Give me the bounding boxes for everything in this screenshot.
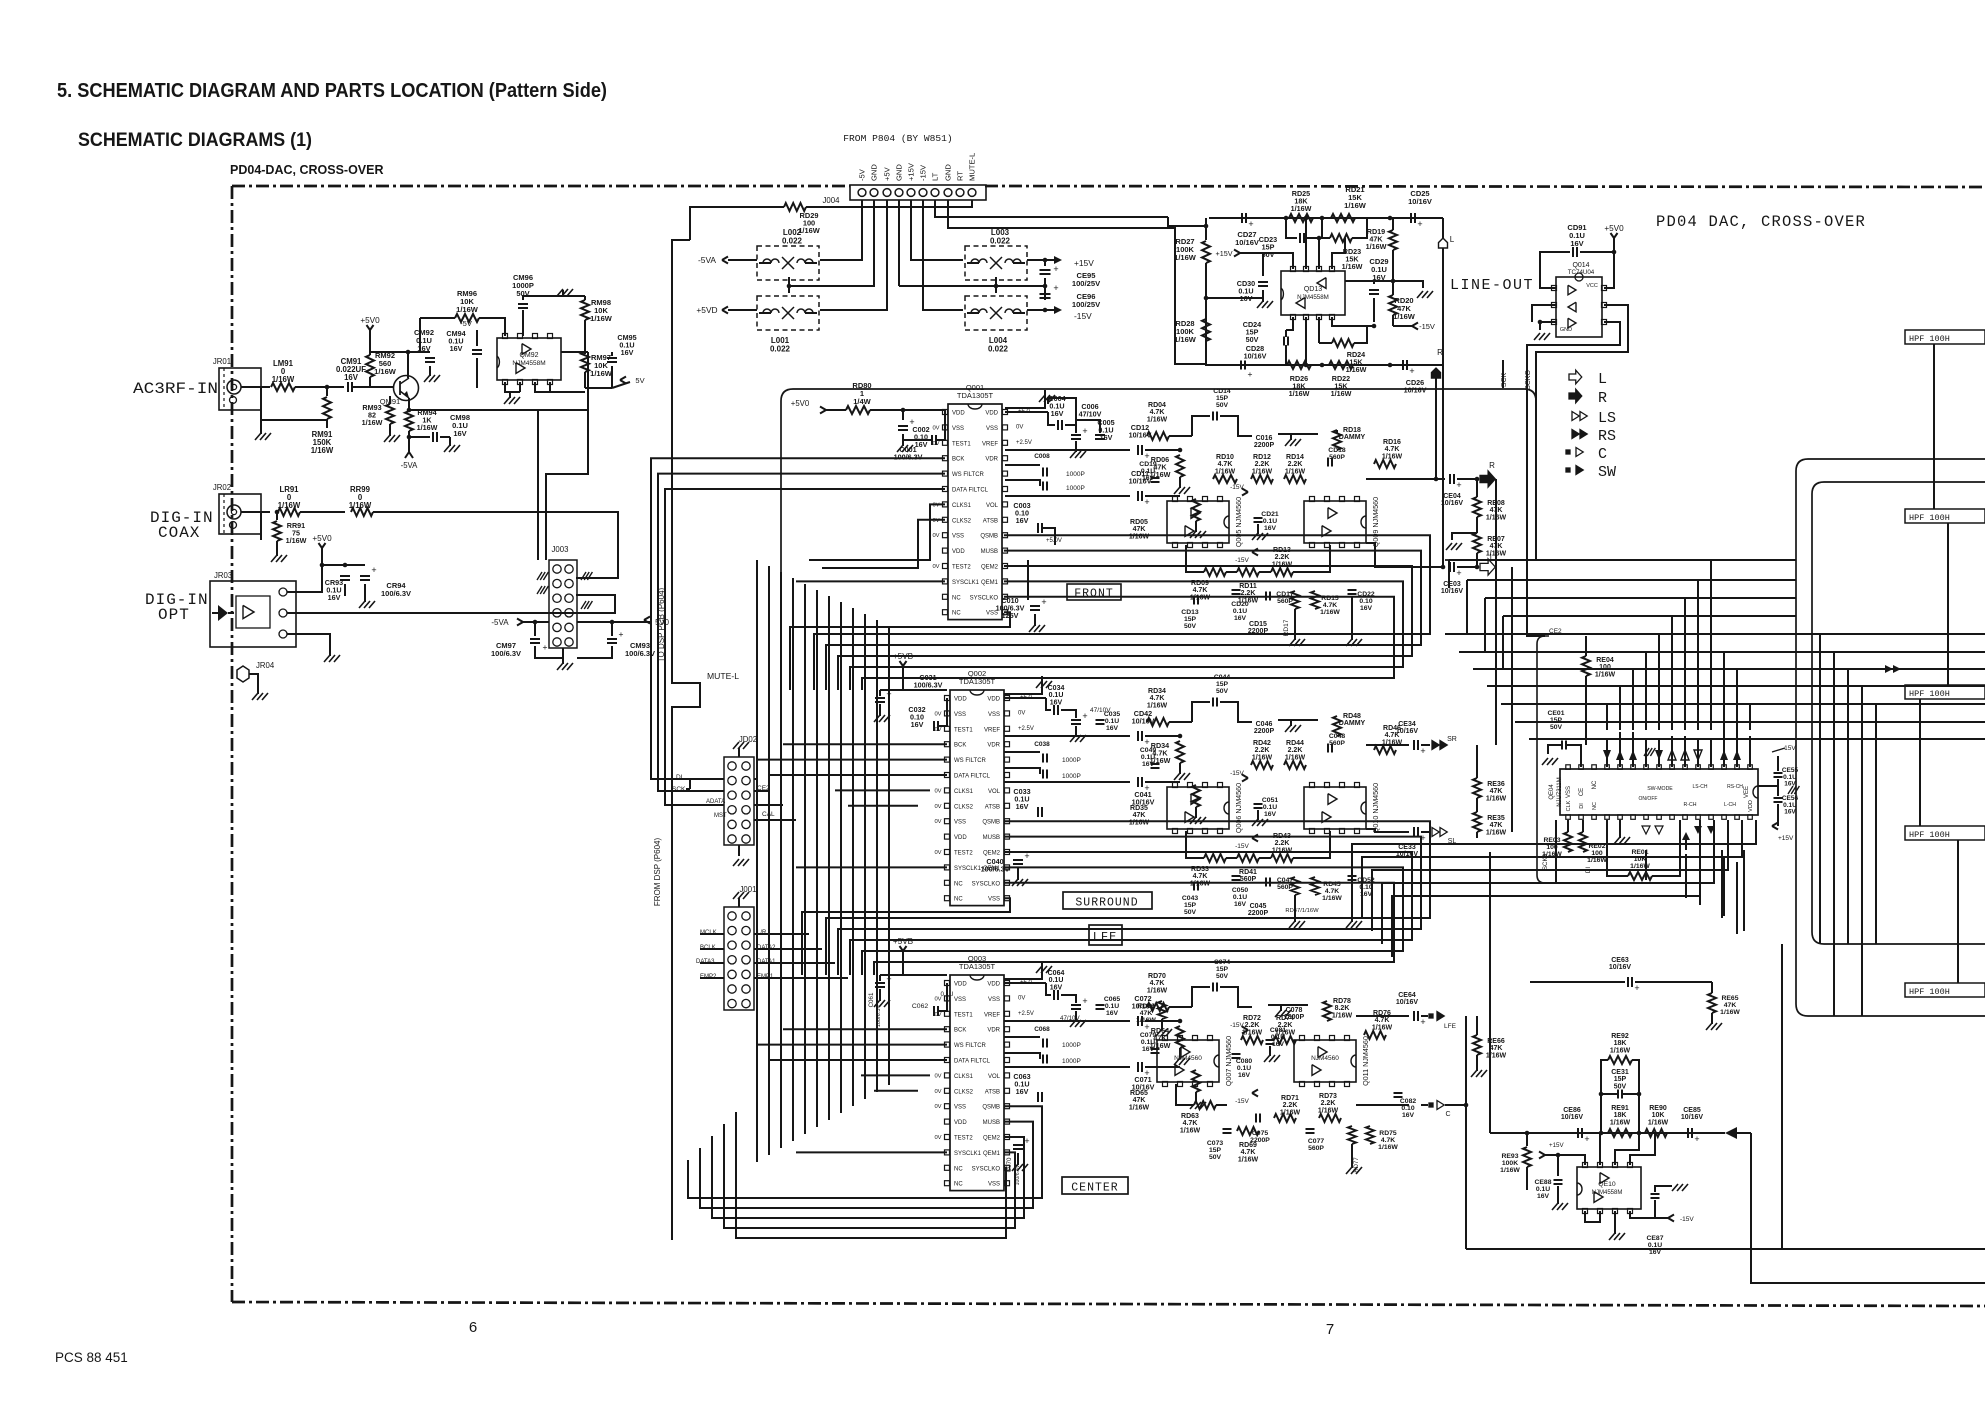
svg-text:16V: 16V <box>453 429 466 438</box>
resistor RE93 <box>1526 1133 1528 1146</box>
svg-text:QEM2: QEM2 <box>983 1136 1001 1142</box>
svg-text:RS: RS <box>1598 428 1616 445</box>
resistor RE65 <box>1708 993 1716 1013</box>
svg-text:-15V: -15V <box>1235 843 1249 850</box>
svg-text:CE85: CE85 <box>1683 1107 1701 1114</box>
svg-text:CD18: CD18 <box>1328 447 1346 454</box>
svg-text:47K: 47K <box>1490 788 1503 795</box>
svg-text:QE04: QE04 <box>1549 784 1555 800</box>
svg-text:RE91: RE91 <box>1611 1105 1629 1112</box>
svg-text:VSS: VSS <box>988 897 1000 903</box>
power -15V QE10 <box>1655 1217 1668 1219</box>
svg-text:+: + <box>1634 983 1639 993</box>
svg-text:1/16W: 1/16W <box>1285 754 1306 761</box>
svg-text:RD72: RD72 <box>1243 1015 1261 1022</box>
svg-text:+5V0: +5V0 <box>791 399 810 408</box>
svg-text:1/16W: 1/16W <box>1587 857 1607 864</box>
svg-text:1/16W: 1/16W <box>1342 262 1363 271</box>
ground RE07 <box>1452 533 1477 540</box>
svg-text:0.1U: 0.1U <box>940 991 953 998</box>
svg-text:6: 6 <box>469 1319 477 1336</box>
wire +15V pin to L003 <box>911 200 963 260</box>
vertical bundle below QE04 <box>1699 850 1701 905</box>
resistor RD16 <box>1374 460 1396 468</box>
svg-text:RE92: RE92 <box>1611 1033 1629 1040</box>
resistor RD80 <box>846 406 870 414</box>
svg-text:10/16V: 10/16V <box>1681 1114 1704 1121</box>
svg-text:VOL: VOL <box>988 1074 1001 1080</box>
svg-text:+15V: +15V <box>1549 1142 1564 1149</box>
svg-text:GND: GND <box>870 164 879 181</box>
svg-text:RD41: RD41 <box>1239 869 1257 876</box>
svg-text:50V: 50V <box>1550 724 1563 731</box>
capacitor CD19 <box>1151 477 1160 479</box>
ground above QE04 <box>1644 748 1649 756</box>
svg-text:C064: C064 <box>1048 970 1065 977</box>
resistor RD25 <box>1289 214 1313 222</box>
svg-text:+2.5V: +2.5V <box>1016 440 1032 446</box>
svg-text:RD18: RD18 <box>1343 427 1361 434</box>
svg-text:2.2K: 2.2K <box>1288 747 1303 754</box>
resistor RD04 <box>1147 432 1169 440</box>
svg-text:47K: 47K <box>1133 812 1146 819</box>
svg-text:HPF 100H: HPF 100H <box>1909 513 1950 523</box>
svg-text:16V: 16V <box>1238 1072 1251 1079</box>
capacitor CE34 <box>1413 740 1415 750</box>
resistor RD06 <box>1145 449 1180 451</box>
svg-text:2.2K: 2.2K <box>1283 1102 1298 1109</box>
power +15V QE10 <box>1539 1152 1545 1156</box>
svg-text:1/16W: 1/16W <box>374 367 397 376</box>
svg-text:18K: 18K <box>1614 1112 1627 1119</box>
wire LT from J004 <box>935 200 1168 217</box>
legend RS double filled <box>1572 430 1579 439</box>
svg-text:Q009 NJM4560: Q009 NJM4560 <box>1371 497 1380 547</box>
svg-text:+: + <box>1409 366 1414 376</box>
svg-text:5. SCHEMATIC DIAGRAM AND PARTS: 5. SCHEMATIC DIAGRAM AND PARTS LOCATION … <box>57 79 607 102</box>
svg-text:L: L <box>1598 371 1607 388</box>
svg-text:+: + <box>1456 480 1461 490</box>
wire GND pin4 <box>898 200 900 286</box>
power +5VB surround <box>902 666 904 674</box>
svg-text:16V: 16V <box>1100 433 1113 442</box>
legend L open arrow <box>1569 370 1582 384</box>
svg-text:LINE-OUT: LINE-OUT <box>1450 277 1534 294</box>
svg-text:NC: NC <box>952 611 961 617</box>
svg-text:+: + <box>1144 451 1149 461</box>
svg-text:CD15: CD15 <box>1249 621 1267 628</box>
capacitor CM95 <box>607 357 617 359</box>
svg-text:L-CH: L-CH <box>1724 802 1736 808</box>
svg-text:SW-MODE: SW-MODE <box>1647 786 1673 792</box>
svg-text:+: + <box>1053 264 1058 274</box>
svg-text:C061: C061 <box>868 992 875 1007</box>
capacitor C062 <box>933 1006 935 1016</box>
svg-text:-15V: -15V <box>1235 1098 1249 1105</box>
surround SR output row <box>1366 744 1409 746</box>
svg-text:-5V: -5V <box>858 168 867 181</box>
svg-text:NC: NC <box>952 595 961 601</box>
svg-text:0V: 0V <box>932 425 939 431</box>
svg-text:BCK: BCK <box>952 457 964 463</box>
svg-text:SCHEMATIC DIAGRAMS (1): SCHEMATIC DIAGRAMS (1) <box>78 129 312 151</box>
svg-text:C045: C045 <box>1250 903 1267 910</box>
svg-text:VDD: VDD <box>954 835 967 841</box>
svg-text:0.1U: 0.1U <box>1263 518 1277 525</box>
svg-text:ATSB: ATSB <box>985 1089 1000 1095</box>
wires QE10 bottom pins <box>1585 1211 1600 1222</box>
capacitor C080 C081 <box>1232 1053 1241 1055</box>
svg-text:RD70: RD70 <box>1148 973 1166 980</box>
resistor RE08 <box>1473 497 1481 517</box>
DAC Q002 <box>950 690 1004 906</box>
wire grid verticals bottom <box>1781 944 1783 1249</box>
svg-text:0.10: 0.10 <box>1401 1105 1414 1112</box>
-15V arrows center <box>1242 1027 1248 1031</box>
svg-text:BCK: BCK <box>954 743 966 749</box>
svg-text:1/16W: 1/16W <box>1190 880 1211 887</box>
svg-text:1000P: 1000P <box>1062 1042 1081 1049</box>
boxed label LFE <box>1089 925 1122 945</box>
filter block corner 2 <box>1812 482 1985 944</box>
svg-text:DATA FILTCL: DATA FILTCL <box>954 774 991 780</box>
svg-text:SURROUND: SURROUND <box>1075 897 1138 910</box>
svg-text:R: R <box>1489 461 1495 470</box>
resistor RD35 <box>1145 781 1180 783</box>
svg-text:PD04-DAC, CROSS-OVER: PD04-DAC, CROSS-OVER <box>230 163 384 177</box>
svg-text:JR02: JR02 <box>213 483 231 492</box>
svg-text:QEM2: QEM2 <box>983 851 1001 857</box>
ground CD29 <box>1393 281 1423 288</box>
nested loop wires below SURROUND DAC <box>826 821 1430 975</box>
svg-text:16V: 16V <box>1142 475 1155 482</box>
resistor RE90 <box>1645 1129 1667 1137</box>
svg-text:PD04 DAC, CROSS-OVER: PD04 DAC, CROSS-OVER <box>1656 213 1866 231</box>
svg-text:C049: C049 <box>1140 747 1156 754</box>
capacitor CE85 <box>1687 1128 1689 1138</box>
svg-text:SYSCLKO: SYSCLKO <box>972 1166 1001 1172</box>
svg-text:CE: CE <box>1579 788 1585 796</box>
svg-text:+: + <box>1584 1134 1589 1144</box>
svg-text:QM92: QM92 <box>519 352 538 359</box>
resistor RE01 <box>1628 872 1652 880</box>
svg-text:+5V0: +5V0 <box>360 316 380 325</box>
front R output row <box>1366 478 1445 480</box>
svg-text:CE86: CE86 <box>1563 1107 1581 1114</box>
svg-text:+: + <box>1082 711 1087 721</box>
svg-text:VSS: VSS <box>988 997 1000 1003</box>
svg-text:CE88: CE88 <box>1534 1179 1551 1186</box>
svg-text:1000P: 1000P <box>1062 757 1081 764</box>
svg-text:C078: C078 <box>1286 1007 1303 1014</box>
op-amp QE10 NJM4558M <box>1577 1167 1641 1209</box>
svg-text:VSS: VSS <box>954 712 966 718</box>
resistor RD70 network top <box>1147 1003 1169 1011</box>
power +5V0 QD14 <box>1613 238 1615 246</box>
wire CE2 bus <box>1537 636 1556 883</box>
svg-text:CD20: CD20 <box>1231 601 1249 608</box>
svg-text:+: + <box>1420 746 1425 756</box>
svg-text:QEM1: QEM1 <box>981 580 999 586</box>
svg-text:100K: 100K <box>1502 1160 1518 1167</box>
capacitor CD21 <box>1254 517 1263 519</box>
svg-text:47K: 47K <box>1490 822 1503 829</box>
bus connections J001 <box>754 933 809 935</box>
svg-text:0.022: 0.022 <box>770 345 791 354</box>
svg-text:-5VA: -5VA <box>491 618 509 627</box>
svg-text:R-CH: R-CH <box>1684 802 1697 808</box>
capacitor C063 <box>1037 1092 1039 1102</box>
svg-text:VDD: VDD <box>952 411 965 417</box>
resistor RE36 <box>1473 778 1481 798</box>
wire QM91 emitter output to right <box>409 409 588 411</box>
capacitor CR94 <box>345 564 365 566</box>
svg-text:C062: C062 <box>912 1003 928 1010</box>
connector J002 <box>724 757 754 845</box>
svg-text:NJM4558M: NJM4558M <box>1297 294 1329 301</box>
svg-text:VSS: VSS <box>986 426 998 432</box>
svg-text:CE64: CE64 <box>1398 992 1416 999</box>
svg-text:50V: 50V <box>1614 1083 1627 1090</box>
svg-text:VOL: VOL <box>988 789 1001 795</box>
svg-text:4.7K: 4.7K <box>1150 695 1165 702</box>
capacitor CE88 <box>1557 1155 1559 1176</box>
svg-text:TDA1305T: TDA1305T <box>957 391 994 400</box>
svg-text:0V: 0V <box>934 788 941 794</box>
op-amp QD13 NJM4558M <box>1281 271 1345 315</box>
ground top right front <box>1005 396 1045 408</box>
connector J001 <box>724 907 754 1010</box>
svg-text:R: R <box>1598 390 1607 407</box>
svg-text:1/16W: 1/16W <box>272 375 295 384</box>
svg-text:0.1U: 0.1U <box>1271 1034 1285 1041</box>
svg-text:1/16W: 1/16W <box>1630 863 1650 870</box>
svg-text:+5V0: +5V0 <box>312 534 332 543</box>
svg-text:VDD: VDD <box>987 697 1000 703</box>
svg-text:VSS: VSS <box>954 1105 966 1111</box>
svg-text:4.7K: 4.7K <box>1193 873 1208 880</box>
svg-text:BCK: BCK <box>954 1028 966 1034</box>
svg-text:15P: 15P <box>1216 395 1229 402</box>
capacitor CD17 <box>1265 592 1267 601</box>
svg-text:RS-CH: RS-CH <box>1727 784 1743 790</box>
trunk wire L down <box>1442 365 1444 567</box>
power +15V QD13 <box>1234 250 1240 254</box>
svg-text:VREF: VREF <box>982 441 998 447</box>
svg-text:+: + <box>1248 369 1253 379</box>
svg-text:16V: 16V <box>1402 1112 1415 1119</box>
svg-text:47K: 47K <box>1133 1097 1146 1104</box>
+5V arrow QM92 <box>612 382 630 388</box>
capacitor CD27 <box>1241 213 1243 223</box>
svg-text:16V: 16V <box>450 344 463 353</box>
svg-text:1/16W: 1/16W <box>1318 1107 1339 1114</box>
arrow into QE10 <box>1725 1127 1737 1139</box>
svg-text:4.7K: 4.7K <box>1193 587 1208 594</box>
svg-text:1/16W: 1/16W <box>349 501 372 510</box>
capacitor CD20 <box>1232 589 1241 591</box>
wire QD14 outputs SCK SCKO <box>1527 322 1620 388</box>
resistor RE03 <box>1564 832 1572 852</box>
boxed label SURROUND <box>1063 892 1152 909</box>
svg-text:100/6.3V: 100/6.3V <box>914 681 943 690</box>
svg-text:C034: C034 <box>1048 685 1065 692</box>
svg-text:1/4W: 1/4W <box>853 397 871 406</box>
svg-text:OPT: OPT <box>158 606 190 624</box>
svg-text:1000P: 1000P <box>1062 773 1081 780</box>
svg-text:2.2K: 2.2K <box>1255 747 1270 754</box>
svg-text:CD21: CD21 <box>1261 511 1279 518</box>
svg-text:0V: 0V <box>934 1104 941 1110</box>
capacitors C068 C067 <box>1004 1036 1040 1038</box>
svg-text:15P: 15P <box>1216 966 1229 973</box>
diode down open above QE04 <box>1694 750 1702 760</box>
capacitor C044 <box>1192 702 1210 722</box>
choke L003 <box>965 246 1027 280</box>
svg-text:100/6.3V: 100/6.3V <box>894 453 923 462</box>
svg-text:0.1U: 0.1U <box>1141 1039 1155 1046</box>
power -5VA at QM91 <box>408 444 410 452</box>
svg-text:RD78: RD78 <box>1333 998 1351 1005</box>
svg-text:C043: C043 <box>1182 895 1198 902</box>
extra loop front <box>790 612 1010 690</box>
connector JR02 <box>219 494 261 534</box>
surround SL output row <box>1366 829 1409 832</box>
svg-text:1/16W: 1/16W <box>1320 609 1340 616</box>
resistor RD27 <box>1205 218 1207 240</box>
svg-text:50V: 50V <box>1184 623 1197 630</box>
svg-text:COAX: COAX <box>158 524 200 542</box>
svg-text:16V: 16V <box>1016 802 1029 811</box>
resistor RD05 <box>1145 495 1180 497</box>
resistor RE66 <box>1473 1035 1481 1055</box>
svg-text:16V: 16V <box>1142 1046 1155 1053</box>
svg-text:10/16V: 10/16V <box>1235 238 1259 247</box>
capacitor C040 <box>1013 859 1023 861</box>
svg-text:RD11: RD11 <box>1239 583 1257 590</box>
svg-text:4.7K: 4.7K <box>1375 1017 1390 1024</box>
svg-text:16V: 16V <box>1234 615 1247 622</box>
svg-text:-15V: -15V <box>1230 484 1244 491</box>
svg-text:-15V: -15V <box>1235 557 1249 564</box>
board border dash-dot top <box>232 185 850 188</box>
trunk verticals right of DAC <box>1495 479 1497 700</box>
resistor RM97 <box>581 352 589 372</box>
svg-text:L: L <box>1450 235 1455 244</box>
resistor RR91 to ground <box>276 512 278 520</box>
svg-text:JR03: JR03 <box>214 571 232 580</box>
capacitor CM96 <box>518 303 528 305</box>
capacitor CD16 <box>1278 433 1318 435</box>
svg-text:+: + <box>1082 996 1087 1006</box>
ground QD14 <box>1540 322 1556 330</box>
svg-text:0.1U: 0.1U <box>1141 468 1155 475</box>
op-amp Q005 NJM4560 <box>1167 501 1229 543</box>
svg-text:C035: C035 <box>1104 711 1120 718</box>
capacitor CD13 <box>1193 596 1195 605</box>
svg-text:1/16W: 1/16W <box>1372 1024 1393 1031</box>
bus vertical wires middle <box>756 560 758 1162</box>
svg-text:NJM4558M: NJM4558M <box>1592 1190 1623 1196</box>
svg-text:VDR: VDR <box>987 743 1000 749</box>
svg-text:10/16V: 10/16V <box>1441 500 1464 507</box>
svg-text:5V: 5V <box>635 376 644 385</box>
choke L002 <box>757 246 819 280</box>
svg-text:100/25V: 100/25V <box>1072 279 1101 288</box>
svg-text:1/16W: 1/16W <box>286 536 307 545</box>
svg-text:RD16: RD16 <box>1383 439 1401 446</box>
svg-text:NC: NC <box>954 881 963 887</box>
filter block corner big <box>1796 459 1985 1016</box>
svg-text:RD14: RD14 <box>1286 454 1304 461</box>
resistor RD64 <box>1145 1020 1180 1022</box>
svg-text:MUTE-L: MUTE-L <box>707 671 739 681</box>
nested L wires below QE04 <box>1352 820 1756 905</box>
svg-text:0.10: 0.10 <box>1359 598 1372 605</box>
wire JR03 data out <box>287 595 615 613</box>
op-amp Q009 NJM4560 <box>1304 501 1366 543</box>
wire bottom long 1 <box>1466 1248 1985 1250</box>
legend C square open <box>1566 450 1570 454</box>
svg-text:16V: 16V <box>1051 409 1064 418</box>
svg-text:1/16W: 1/16W <box>278 501 301 510</box>
svg-text:DAMMY: DAMMY <box>1339 720 1366 727</box>
svg-text:JR04: JR04 <box>256 661 275 670</box>
svg-text:10/16V: 10/16V <box>1404 386 1427 395</box>
capacitor CD72 <box>1137 1016 1139 1026</box>
svg-text:VREF: VREF <box>984 1012 1000 1018</box>
svg-text:C082: C082 <box>1400 1098 1416 1105</box>
svg-text:RD05: RD05 <box>1130 519 1148 526</box>
svg-text:2200P: 2200P <box>1250 1137 1270 1144</box>
resistor LM91 <box>271 383 295 391</box>
svg-text:J004: J004 <box>823 196 841 205</box>
svg-text:1/16W: 1/16W <box>1238 1156 1259 1163</box>
ground J003 <box>562 648 564 664</box>
capacitor CE86 <box>1577 1128 1579 1138</box>
svg-text:1/16W: 1/16W <box>1129 1104 1150 1111</box>
wire QM91 collector to +5V rail <box>370 352 408 378</box>
wire DAC section boundary <box>781 389 1536 660</box>
svg-text:16V: 16V <box>1264 811 1277 818</box>
DAC Q001 <box>948 404 1002 620</box>
center output wires <box>1004 1020 1130 1022</box>
svg-text:2200P: 2200P <box>1254 442 1275 449</box>
capacitor CD30 <box>1258 281 1268 283</box>
svg-text:CE04: CE04 <box>1443 493 1461 500</box>
svg-text:MUTE-L: MUTE-L <box>968 153 977 181</box>
resistor RR99 <box>351 508 373 516</box>
svg-text:1/16W: 1/16W <box>1252 754 1273 761</box>
resistor RD22 <box>1329 361 1353 369</box>
svg-text:VSS: VSS <box>1566 786 1572 798</box>
wire QE04 outputs down <box>1645 850 1647 880</box>
svg-text:+: + <box>1417 219 1422 229</box>
svg-text:GND: GND <box>944 164 953 181</box>
surround right caps <box>1004 697 1046 699</box>
svg-text:VDR: VDR <box>987 1028 1000 1034</box>
svg-text:VSS: VSS <box>988 1182 1000 1188</box>
capacitor CD12 <box>1137 445 1139 455</box>
wire SCK trunk <box>1527 388 1545 636</box>
svg-text:1/16W: 1/16W <box>1610 1047 1631 1054</box>
svg-text:1/16W: 1/16W <box>1344 201 1367 210</box>
svg-text:+15V: +15V <box>1074 258 1094 268</box>
svg-text:C051: C051 <box>1262 797 1278 804</box>
svg-text:+: + <box>1420 1017 1425 1027</box>
transistor emitter network RM94 CM98 <box>408 398 410 410</box>
choke L001 <box>757 296 819 330</box>
